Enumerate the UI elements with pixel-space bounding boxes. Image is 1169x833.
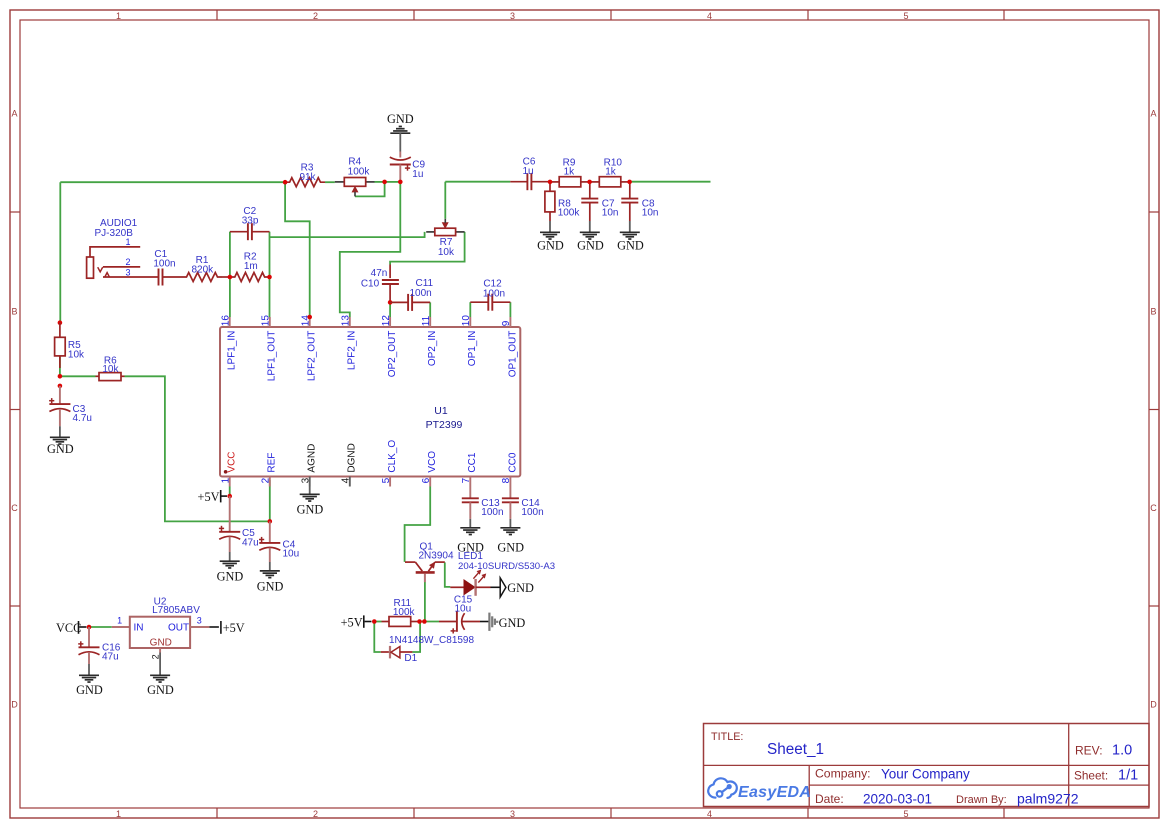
- svg-text:1: 1: [117, 615, 122, 625]
- svg-text:10n: 10n: [602, 208, 619, 219]
- svg-text:CC1: CC1: [467, 452, 478, 472]
- svg-text:1: 1: [116, 809, 121, 819]
- svg-text:PT2399: PT2399: [426, 419, 463, 431]
- svg-text:3: 3: [125, 267, 130, 277]
- svg-text:10u: 10u: [455, 603, 472, 614]
- svg-text:10k: 10k: [68, 350, 85, 361]
- svg-text:10: 10: [461, 315, 472, 327]
- svg-text:13: 13: [341, 315, 352, 327]
- svg-text:47n: 47n: [371, 268, 388, 279]
- svg-text:GND: GND: [47, 442, 74, 456]
- svg-text:1.0: 1.0: [1112, 743, 1132, 759]
- svg-text:GND: GND: [76, 683, 103, 697]
- svg-text:REF: REF: [267, 453, 278, 473]
- svg-text:CC0: CC0: [507, 452, 518, 472]
- svg-text:A: A: [1150, 109, 1156, 119]
- svg-text:REV:: REV:: [1075, 743, 1103, 757]
- svg-text:9: 9: [501, 320, 512, 326]
- svg-text:LPF1_OUT: LPF1_OUT: [267, 331, 278, 382]
- svg-text:C: C: [1150, 503, 1157, 513]
- svg-text:GND: GND: [150, 637, 172, 648]
- svg-text:100k: 100k: [348, 166, 371, 177]
- svg-text:2: 2: [313, 809, 318, 819]
- svg-text:OP1_IN: OP1_IN: [467, 331, 478, 367]
- svg-text:2: 2: [125, 257, 130, 267]
- svg-text:2020-03-01: 2020-03-01: [863, 792, 932, 807]
- svg-text:OP1_OUT: OP1_OUT: [507, 331, 518, 378]
- svg-text:1k: 1k: [564, 166, 576, 177]
- svg-text:1m: 1m: [244, 261, 258, 272]
- svg-text:3: 3: [510, 11, 515, 21]
- svg-text:10n: 10n: [642, 208, 659, 219]
- svg-text:15: 15: [261, 315, 272, 327]
- svg-text:GND: GND: [217, 570, 244, 584]
- svg-text:VCC: VCC: [56, 621, 81, 635]
- svg-text:1: 1: [220, 477, 231, 483]
- svg-text:EasyEDA: EasyEDA: [738, 784, 811, 801]
- svg-text:2: 2: [151, 654, 161, 659]
- svg-text:palm9272: palm9272: [1017, 790, 1079, 806]
- svg-text:1N4148W_C81598: 1N4148W_C81598: [389, 635, 474, 646]
- svg-text:LPF2_OUT: LPF2_OUT: [307, 331, 318, 382]
- svg-text:Date:: Date:: [815, 792, 844, 806]
- svg-text:5: 5: [903, 11, 908, 21]
- svg-text:+5V: +5V: [223, 621, 245, 635]
- svg-text:Your Company: Your Company: [881, 766, 970, 781]
- svg-text:6: 6: [421, 477, 432, 483]
- svg-text:47u: 47u: [242, 537, 259, 548]
- svg-text:5: 5: [903, 809, 908, 819]
- svg-text:16: 16: [220, 315, 231, 327]
- svg-text:IN: IN: [134, 623, 144, 634]
- svg-text:2: 2: [313, 11, 318, 21]
- svg-text:7: 7: [461, 477, 472, 483]
- svg-text:204-10SURD/S530-A3: 204-10SURD/S530-A3: [458, 561, 555, 572]
- svg-text:Sheet:: Sheet:: [1074, 769, 1108, 783]
- svg-text:OUT: OUT: [168, 623, 189, 634]
- svg-text:100n: 100n: [481, 507, 503, 518]
- svg-text:AGND: AGND: [307, 444, 318, 473]
- svg-text:2: 2: [261, 477, 272, 483]
- svg-text:1k: 1k: [605, 166, 617, 177]
- svg-text:3: 3: [510, 809, 515, 819]
- svg-text:1: 1: [125, 237, 130, 247]
- svg-text:11: 11: [421, 315, 432, 326]
- svg-text:91k: 91k: [299, 172, 316, 183]
- svg-text:L7805ABV: L7805ABV: [152, 605, 200, 616]
- svg-text:VCO: VCO: [427, 451, 438, 473]
- svg-text:10u: 10u: [283, 548, 300, 559]
- svg-text:GND: GND: [387, 112, 414, 126]
- svg-text:DGND: DGND: [347, 443, 358, 472]
- svg-text:10k: 10k: [438, 247, 455, 258]
- svg-text:U1: U1: [434, 405, 448, 417]
- svg-text:100k: 100k: [558, 208, 581, 219]
- svg-text:GND: GND: [499, 616, 526, 630]
- svg-text:100k: 100k: [393, 607, 416, 618]
- svg-text:1/1: 1/1: [1118, 768, 1138, 784]
- svg-text:GND: GND: [537, 239, 564, 253]
- svg-text:3: 3: [300, 477, 311, 483]
- svg-text:Drawn By:: Drawn By:: [956, 794, 1007, 806]
- svg-text:LPF2_IN: LPF2_IN: [347, 331, 358, 370]
- svg-text:C10: C10: [361, 279, 380, 290]
- svg-text:TITLE:: TITLE:: [711, 731, 743, 743]
- svg-text:1u: 1u: [522, 166, 533, 177]
- svg-text:VCC: VCC: [227, 451, 238, 472]
- svg-text:D: D: [1150, 700, 1157, 710]
- svg-text:100n: 100n: [153, 258, 175, 269]
- svg-text:100n: 100n: [409, 288, 431, 299]
- svg-text:4.7u: 4.7u: [73, 413, 92, 424]
- svg-text:B: B: [11, 307, 17, 317]
- svg-text:+5V: +5V: [198, 490, 220, 504]
- svg-text:8: 8: [501, 477, 512, 483]
- svg-text:2N3904: 2N3904: [419, 551, 454, 562]
- svg-text:OP2_OUT: OP2_OUT: [387, 331, 398, 378]
- svg-text:47u: 47u: [102, 652, 119, 663]
- svg-text:D: D: [11, 700, 18, 710]
- svg-text:GND: GND: [497, 541, 524, 555]
- svg-text:Company:: Company:: [815, 767, 871, 781]
- svg-text:A: A: [11, 109, 17, 119]
- svg-text:GND: GND: [507, 581, 534, 595]
- svg-text:Sheet_1: Sheet_1: [767, 741, 824, 758]
- svg-text:OP2_IN: OP2_IN: [427, 331, 438, 367]
- svg-text:4: 4: [707, 809, 712, 819]
- svg-text:B: B: [1150, 307, 1156, 317]
- svg-text:GND: GND: [147, 683, 174, 697]
- svg-text:+5V: +5V: [341, 616, 363, 630]
- svg-text:12: 12: [381, 315, 392, 327]
- svg-text:820k: 820k: [191, 265, 214, 276]
- svg-text:C: C: [11, 503, 18, 513]
- svg-text:GND: GND: [257, 579, 284, 593]
- svg-text:GND: GND: [617, 239, 644, 253]
- svg-text:GND: GND: [297, 502, 324, 516]
- svg-text:3: 3: [197, 615, 202, 625]
- svg-text:100n: 100n: [483, 289, 505, 300]
- svg-text:4: 4: [341, 477, 352, 483]
- svg-text:1u: 1u: [412, 169, 423, 180]
- svg-text:10k: 10k: [102, 364, 119, 375]
- svg-text:4: 4: [707, 11, 712, 21]
- svg-text:1: 1: [116, 11, 121, 21]
- svg-text:5: 5: [381, 477, 392, 483]
- svg-text:LPF1_IN: LPF1_IN: [227, 331, 238, 370]
- svg-text:100n: 100n: [521, 507, 543, 518]
- svg-text:CLK_O: CLK_O: [387, 440, 398, 473]
- svg-text:D1: D1: [404, 653, 417, 664]
- svg-text:GND: GND: [577, 239, 604, 253]
- svg-text:33p: 33p: [242, 215, 259, 226]
